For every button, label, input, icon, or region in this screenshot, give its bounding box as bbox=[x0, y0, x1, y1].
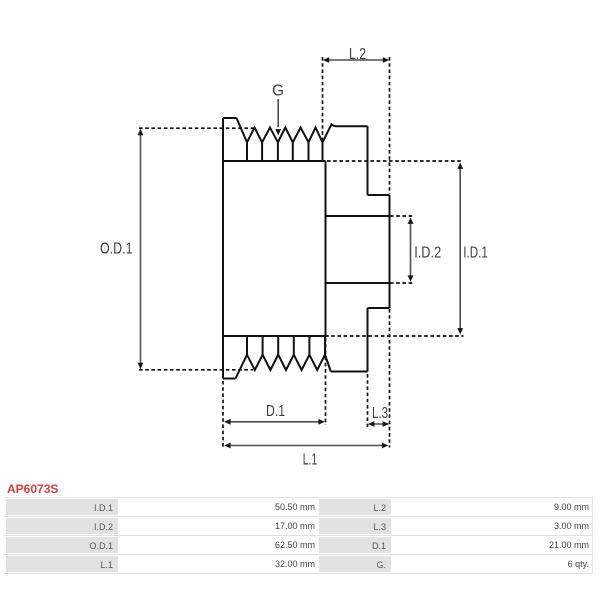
top groove root slots bbox=[247, 142, 323, 161]
svg-text:L.1: L.1 bbox=[303, 451, 318, 468]
I.D.1 bottom extension dashed bbox=[325, 335, 464, 337]
label D.1 bbox=[266, 403, 285, 420]
label O.D.1 bbox=[100, 241, 133, 258]
dimension D.1 line bbox=[224, 419, 325, 425]
hub right face bbox=[389, 195, 391, 308]
label L.2 bbox=[349, 46, 366, 63]
bore top line bbox=[326, 215, 390, 217]
I.D.2 bottom extension dashed bbox=[390, 282, 413, 284]
body top line bbox=[223, 160, 326, 162]
dimension L.3 line bbox=[368, 421, 389, 427]
svg-text:I.D.2: I.D.2 bbox=[414, 245, 441, 262]
label I.D.2 bbox=[414, 245, 441, 262]
svg-text:D.1: D.1 bbox=[266, 403, 285, 420]
svg-text:L.2: L.2 bbox=[349, 46, 366, 63]
L.1 right extension dashed lower bbox=[389, 309, 391, 448]
dimension L.2 line bbox=[323, 57, 389, 63]
L.2 right extension dashed upper bbox=[389, 57, 391, 194]
svg-text:G: G bbox=[272, 83, 284, 100]
O.D.1 top extension dashed bbox=[139, 127, 254, 129]
pulley top groove zigzag profile bbox=[237, 118, 368, 142]
D.1 right extension dashed bbox=[325, 338, 327, 425]
body right edge bbox=[325, 161, 327, 336]
dimension O.D.1 line bbox=[138, 129, 144, 369]
L.3 left extension dashed bbox=[367, 374, 369, 427]
product code title bbox=[7, 482, 58, 496]
right hub bottom vertical bbox=[367, 308, 369, 372]
L.2 left extension dashed bbox=[322, 57, 324, 142]
hub top step bbox=[368, 194, 390, 196]
specification table bbox=[5, 497, 593, 574]
pulley bottom groove zigzag profile bbox=[236, 355, 331, 379]
dimension I.D.1 line bbox=[457, 163, 463, 335]
bore bottom line bbox=[326, 282, 390, 284]
body bottom line bbox=[223, 335, 326, 337]
label G bbox=[272, 83, 284, 100]
pulley left flange edge bbox=[222, 118, 224, 379]
pulley flange top flat bbox=[223, 117, 237, 119]
dimension I.D.2 line bbox=[408, 218, 414, 282]
svg-text:L.3: L.3 bbox=[372, 405, 388, 422]
label L.1 bbox=[303, 451, 318, 468]
hub bottom step bbox=[368, 307, 390, 309]
pulley bottom flat bbox=[223, 378, 236, 380]
bottom groove root slots bbox=[247, 336, 325, 355]
I.D.2 top extension dashed bbox=[390, 215, 413, 217]
O.D.1 bottom extension dashed bbox=[139, 369, 253, 371]
groove G leader arrow bbox=[275, 99, 281, 136]
right hub top vertical bbox=[367, 126, 369, 195]
svg-text:O.D.1: O.D.1 bbox=[100, 241, 133, 258]
label L.3 bbox=[372, 405, 388, 422]
label I.D.1 bbox=[463, 245, 488, 262]
L.1 left extension dashed bbox=[222, 381, 224, 448]
svg-text:I.D.1: I.D.1 bbox=[463, 245, 488, 262]
hub bottom flat bbox=[331, 371, 368, 373]
I.D.1 top extension dashed bbox=[327, 160, 464, 162]
dimension L.1 line bbox=[224, 443, 388, 449]
